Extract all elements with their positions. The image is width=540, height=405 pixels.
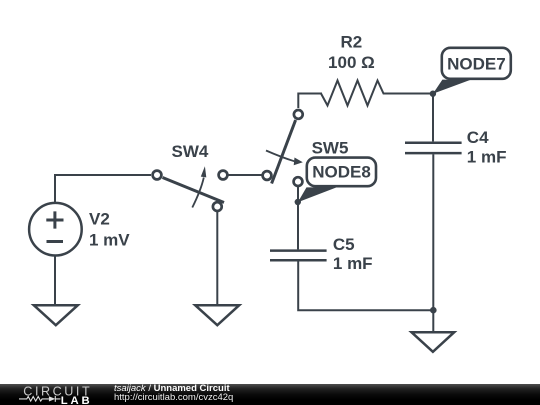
svg-text:C4: C4: [467, 128, 489, 147]
attribution text: [114, 384, 233, 403]
wire C5 bottom to right: [298, 261, 433, 310]
bottom brand bar: [0, 384, 540, 405]
wire V2 bottom to ground: [54, 255, 56, 305]
switch SW4: [153, 166, 228, 211]
wire C4 bottom down to ground: [432, 154, 434, 331]
ground (under SW4): [195, 305, 239, 325]
NODE7 flag pointer: [433, 80, 470, 94]
svg-text:LAB: LAB: [61, 395, 93, 405]
svg-text:R2: R2: [341, 33, 363, 52]
junction node at SW5/C5 (NODE8): [295, 199, 301, 205]
wire SW5 bottom to C5: [297, 186, 299, 249]
wire SW4 to SW5: [228, 174, 262, 176]
NODE8 label box: [307, 158, 376, 187]
capacitor C5: [270, 251, 327, 261]
junction node bottom right: [430, 307, 437, 314]
wire SW4 bottom to ground: [216, 211, 218, 304]
label V2 value: [89, 33, 506, 273]
svg-text:C5: C5: [333, 235, 355, 254]
ground (bottom right): [412, 332, 455, 352]
svg-text:V2: V2: [89, 210, 110, 229]
svg-text:1 mF: 1 mF: [467, 148, 507, 167]
svg-text:1 mV: 1 mV: [89, 230, 130, 249]
resistor R2: [321, 81, 433, 106]
CircuitLab logo: [0, 384, 110, 405]
wire V2 top to SW4: [55, 175, 151, 204]
svg-text:NODE7: NODE7: [447, 54, 506, 73]
capacitor C4: [405, 143, 462, 153]
voltage source V2: [29, 203, 82, 256]
junction node at R2/C4 (NODE7): [430, 91, 436, 97]
wire SW5 top to R2: [298, 94, 322, 109]
svg-text:SW4: SW4: [172, 142, 209, 161]
NODE7 label box: [442, 48, 511, 79]
svg-text:100 Ω: 100 Ω: [328, 53, 375, 72]
ground (under V2): [34, 305, 78, 325]
svg-text:1 mF: 1 mF: [333, 254, 373, 273]
svg-text:SW5: SW5: [312, 139, 349, 158]
NODE8 flag pointer: [298, 187, 337, 202]
svg-text:NODE8: NODE8: [312, 162, 371, 181]
switch SW5: [263, 110, 303, 186]
wire junction to C4: [432, 95, 434, 141]
